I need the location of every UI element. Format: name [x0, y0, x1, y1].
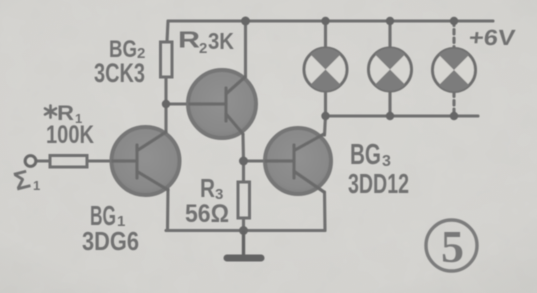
svg-text:56Ω: 56Ω: [185, 200, 229, 228]
lamp L1: [304, 48, 347, 91]
wire input to R1: [37, 159, 50, 162]
wire lamp L2 bottom lead: [388, 91, 391, 117]
figure number 5: [426, 220, 477, 272]
junction node lamp rail / L2: [386, 112, 394, 120]
wire BG1 emitter down: [166, 189, 170, 231]
wire bottom emitter rail: [166, 229, 325, 232]
resistor R3: [238, 182, 250, 218]
ground: [227, 231, 261, 259]
svg-text:R: R: [200, 173, 215, 203]
svg-text:1: 1: [33, 178, 40, 193]
svg-text:3K: 3K: [208, 28, 234, 54]
resistor R2: [161, 42, 173, 77]
label *R1: [45, 106, 56, 118]
wire lamp L2 top lead: [388, 21, 391, 48]
junction node top rail / L2: [386, 17, 394, 25]
transistor BG3: [265, 128, 331, 194]
wire BG2 emitter down to node B: [241, 135, 245, 161]
svg-text:3DD12: 3DD12: [348, 168, 409, 199]
wire BG2 collector to top rail: [244, 21, 247, 80]
junction node B: [239, 157, 248, 166]
lamp L3: [433, 49, 476, 92]
wire BG3 emitter down to bottom rail: [323, 192, 327, 231]
wire node B to BG3 base: [244, 159, 267, 162]
svg-text:3DG6: 3DG6: [82, 226, 139, 256]
svg-text:+6V: +6V: [468, 25, 517, 50]
svg-text:BG: BG: [350, 139, 381, 171]
lamp L2: [369, 48, 412, 91]
wire R2 branch top: [167, 21, 168, 42]
input terminal: [25, 156, 36, 167]
wire top supply rail: [168, 19, 493, 22]
transistor BG1: [112, 127, 180, 195]
junction node A: [162, 100, 170, 108]
wire R1 to BG1 base: [87, 159, 113, 162]
junction node top rail / L1: [321, 17, 329, 25]
junction node lamp rail / BG3 collector: [321, 112, 329, 120]
junction node top rail / L3: [450, 17, 458, 25]
svg-text:100K: 100K: [46, 121, 94, 149]
wire lamp L3 dashed bottom lead: [452, 92, 455, 116]
wire lamp bottom rail: [326, 114, 479, 117]
wire BG3 collector up to lamp rail: [325, 116, 326, 135]
junction node top rail / BG2 collector: [241, 17, 250, 26]
wire R2 bottom to node A: [164, 77, 167, 104]
wire node B to R3 top: [242, 161, 245, 182]
wire lamp L1 top lead: [324, 21, 327, 48]
wire lamp L1 bottom lead: [324, 91, 327, 117]
svg-text:3CK3: 3CK3: [94, 58, 145, 88]
wire node A to BG2 base: [166, 102, 190, 105]
wire node A down to BG1 collector: [164, 104, 167, 134]
wire R3 bottom to node C: [242, 218, 245, 231]
svg-text:2: 2: [199, 40, 207, 57]
junction node lamp rail / L3: [450, 112, 458, 120]
wire lamp L3 dashed top lead: [452, 21, 455, 48]
svg-text:5: 5: [441, 221, 464, 272]
transistor BG2: [188, 70, 256, 138]
resistor R1 100K: [50, 156, 87, 168]
junction node C ground: [239, 226, 248, 235]
svg-text:R: R: [178, 27, 200, 53]
